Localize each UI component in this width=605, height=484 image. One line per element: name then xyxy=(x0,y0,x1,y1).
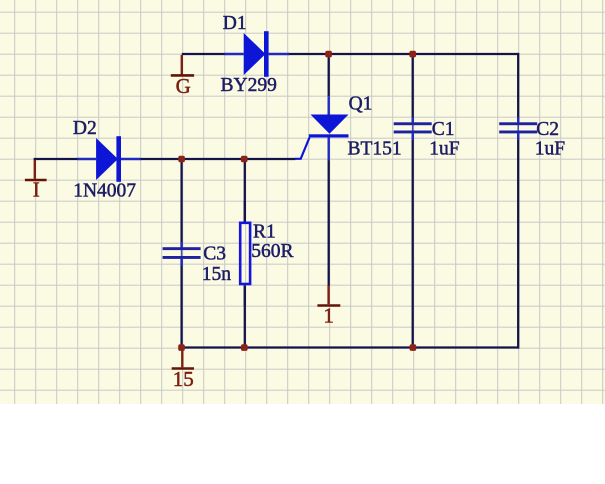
wire middle rail right (D2 to Q1 gate) xyxy=(140,158,296,160)
wire R1 branch upper xyxy=(244,159,246,222)
svg-text:1N4007: 1N4007 xyxy=(73,181,136,202)
wire C3 branch lower xyxy=(180,259,182,348)
svg-text:C1: C1 xyxy=(432,119,455,140)
svg-text:15: 15 xyxy=(173,367,194,391)
wire Q1 cathode to port 1 xyxy=(328,160,330,286)
junction dot top rail at C1 branch xyxy=(409,51,416,58)
svg-text:BT151: BT151 xyxy=(348,138,402,159)
svg-text:Q1: Q1 xyxy=(349,94,373,115)
junction dot middle rail at R1 branch xyxy=(241,156,248,163)
diode D1 (BY299) xyxy=(225,31,290,77)
svg-text:I: I xyxy=(33,178,40,202)
power port I xyxy=(25,160,47,180)
wire right vertical (C2 branch upper) xyxy=(517,53,519,122)
wire Q1 anode branch xyxy=(328,54,330,96)
wire R1 branch lower xyxy=(244,285,246,347)
wire top rail left segment (G to D1) xyxy=(182,53,226,55)
power port G xyxy=(171,55,194,75)
wire top rail right segment (D1 to C2 corner) xyxy=(288,53,518,55)
junction dot bottom rail at C1 branch xyxy=(410,344,417,351)
power port 15 xyxy=(172,351,194,369)
capacitor C2 (1uF) xyxy=(499,117,537,140)
svg-text:C2: C2 xyxy=(536,119,559,140)
junction dot bottom rail at port 15 xyxy=(178,344,185,351)
svg-text:C3: C3 xyxy=(203,243,226,264)
junction dot top rail at Q1 branch xyxy=(325,51,332,58)
svg-text:D1: D1 xyxy=(223,13,247,34)
svg-text:15n: 15n xyxy=(202,264,232,285)
capacitor C1 (1uF) xyxy=(394,117,432,140)
svg-text:560R: 560R xyxy=(251,241,293,262)
resistor R1 (560R) xyxy=(240,201,250,306)
wire middle rail left (I to D2) xyxy=(34,158,79,160)
svg-text:1uF: 1uF xyxy=(535,139,566,160)
svg-text:BY299: BY299 xyxy=(221,75,277,96)
wire bottom rail xyxy=(182,346,519,348)
power port 1 xyxy=(317,286,340,306)
svg-text:D2: D2 xyxy=(73,118,97,139)
thyristor Q1 (BT151) xyxy=(295,96,349,160)
svg-text:G: G xyxy=(176,74,191,98)
svg-text:1: 1 xyxy=(323,303,334,327)
junction dot bottom rail at R1 branch xyxy=(241,344,248,351)
svg-text:R1: R1 xyxy=(253,222,276,243)
junction dot middle rail at C3 branch xyxy=(178,156,185,163)
diode D2 (1N4007) xyxy=(78,136,141,182)
wire C1 branch upper xyxy=(412,54,414,122)
wire C3 branch upper xyxy=(180,159,182,247)
wire right vertical (C2 branch lower) xyxy=(517,133,519,348)
svg-text:1uF: 1uF xyxy=(429,139,460,160)
wire C1 branch lower xyxy=(412,133,414,347)
capacitor C3 (15n) xyxy=(163,242,201,266)
